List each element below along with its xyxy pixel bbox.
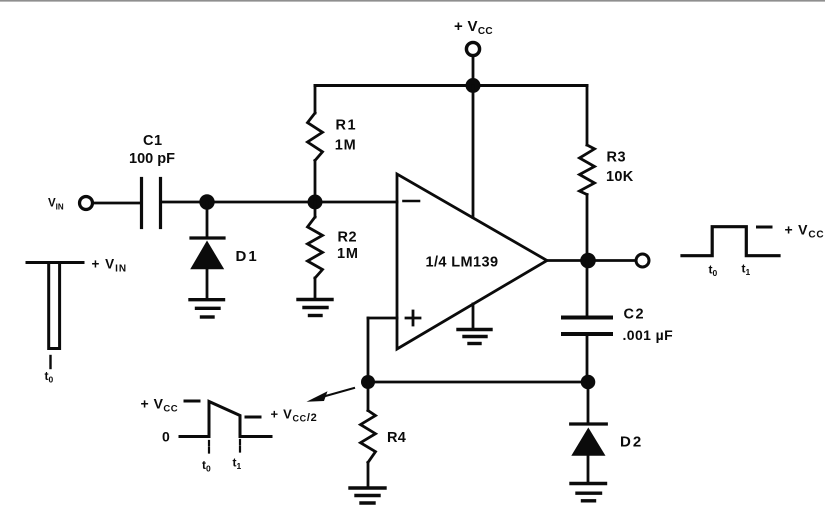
- dash at VCC/2 level: [246, 416, 260, 419]
- junction dot on rail: [466, 78, 481, 93]
- output node junction: [580, 253, 596, 269]
- svg-text:t1: t1: [742, 262, 751, 278]
- svg-text:C2: C2: [624, 306, 646, 322]
- wire VCC to comparator V+ pin: [472, 86, 475, 218]
- node B junction (R1/R2): [308, 195, 323, 210]
- waveform output pulse: [682, 227, 779, 256]
- ground below D1: [190, 300, 224, 317]
- dash at VCC level: [185, 400, 199, 403]
- tick t1 dashed: [239, 440, 241, 453]
- diode D1: [190, 202, 224, 299]
- svg-text:R1: R1: [336, 117, 358, 133]
- svg-text:+ VCC: + VCC: [785, 222, 825, 241]
- waveform VCC/2 trace: [180, 402, 271, 437]
- arrow pointing to node C: [307, 388, 355, 402]
- comparator ground pin: [472, 304, 475, 329]
- ground below comparator: [458, 330, 491, 344]
- power +VCC terminal: [466, 42, 479, 55]
- wire bottom rail: [368, 381, 588, 384]
- resistor R3: [580, 86, 595, 261]
- resistor R1: [308, 86, 323, 203]
- svg-text:t0: t0: [709, 263, 718, 279]
- op-amp U1 1/4 LM139: [397, 174, 547, 349]
- svg-text:+ VCC/2: + VCC/2: [271, 407, 318, 425]
- label +VCC output: [785, 222, 825, 241]
- wire top rail: [315, 84, 587, 87]
- zero label: [162, 429, 170, 445]
- tick t0 dashed: [208, 441, 210, 454]
- diode D2: [571, 382, 607, 483]
- node VIN label: [48, 198, 64, 212]
- node D junction (C2 / D2): [581, 375, 596, 390]
- output terminal: [636, 254, 649, 267]
- svg-text:1M: 1M: [335, 137, 357, 153]
- dash at VCC level output: [758, 226, 772, 229]
- wire op-amp output: [547, 259, 636, 262]
- svg-text:R4: R4: [387, 430, 406, 446]
- svg-text:0: 0: [162, 429, 170, 445]
- svg-text:+ VIN: + VIN: [92, 257, 128, 275]
- svg-text:+ VCC: + VCC: [141, 395, 179, 414]
- tick t0 on VIN waveform: [49, 356, 51, 368]
- svg-text:R2: R2: [338, 230, 358, 246]
- wire C1 to op-amp minus input: [162, 201, 397, 204]
- svg-text:.001 µF: .001 µF: [623, 327, 674, 343]
- node C junction (R4 / plus input): [361, 375, 375, 389]
- svg-text:100 pF: 100 pF: [129, 151, 175, 167]
- resistor R4: [361, 382, 376, 487]
- input terminal VIN: [80, 197, 93, 210]
- svg-text:C1: C1: [143, 133, 163, 149]
- svg-text:t0: t0: [202, 458, 211, 474]
- ground below R2: [298, 300, 332, 316]
- waveform VIN input pulse: [27, 263, 83, 349]
- label t1 output: [742, 262, 751, 278]
- svg-text:1M: 1M: [337, 246, 359, 262]
- label t1 VCC/2 waveform: [233, 456, 242, 472]
- node A junction (C1 / D1): [199, 194, 214, 209]
- svg-text:t0: t0: [45, 369, 54, 385]
- capacitor C2: [563, 261, 611, 383]
- label t0 VCC/2 waveform: [202, 458, 211, 474]
- resistor R2: [308, 202, 323, 299]
- label +VCC/2: [271, 407, 318, 425]
- svg-text:VIN: VIN: [48, 198, 64, 212]
- wire VCC terminal to rail: [472, 56, 475, 86]
- label t0 output: [709, 263, 718, 279]
- ground below D2: [571, 484, 606, 501]
- ground below R4: [350, 488, 385, 503]
- svg-text:t1: t1: [233, 456, 242, 472]
- capacitor C1: [142, 179, 161, 228]
- svg-text:D2: D2: [620, 434, 643, 451]
- wire input to C1: [93, 202, 141, 205]
- minus input symbol: [404, 200, 420, 203]
- svg-text:D1: D1: [236, 248, 259, 265]
- svg-text:10K: 10K: [606, 169, 634, 185]
- svg-text:+ VCC: + VCC: [454, 18, 493, 37]
- waveform VCC/2 labels left: [141, 395, 179, 414]
- power +VCC label: [454, 18, 493, 37]
- svg-text:R3: R3: [607, 150, 627, 166]
- plus input symbol: [406, 311, 420, 325]
- wire node C to plus input: [368, 318, 397, 382]
- svg-text:1/4 LM139: 1/4 LM139: [426, 254, 499, 270]
- top border line: [0, 0, 825, 2]
